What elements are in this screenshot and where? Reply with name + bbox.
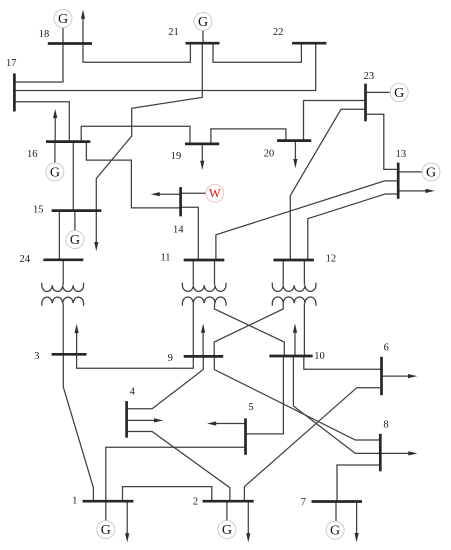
load arrow bus 10 [294, 331, 296, 356]
generator G1 stem [105, 501, 107, 521]
arrowhead bus 19 load [200, 161, 204, 170]
generator G2 [218, 521, 236, 539]
load arrow bus 13 [398, 190, 427, 192]
transformer T24-3 stem bottom to bus 3 [62, 303, 64, 354]
arrowhead bus 18 load [81, 10, 85, 19]
load arrow bus 1 [126, 501, 128, 535]
bus 18 [48, 42, 92, 45]
svg-text:16: 16 [27, 149, 38, 160]
wire transformer T12 to bus 10 [303, 303, 305, 356]
load arrow bus 8 [380, 452, 410, 454]
wire line 11-14 [181, 207, 199, 260]
arrowhead bus 5 load [207, 421, 216, 425]
wire line 12-23 [290, 109, 365, 260]
svg-text:11: 11 [160, 253, 170, 264]
load arrow bus 16 [54, 116, 56, 141]
bus 14 [179, 187, 182, 216]
bus 7 [312, 500, 363, 503]
generator G23 [390, 83, 408, 101]
load arrow bus 14 [158, 193, 181, 195]
svg-text:2: 2 [193, 496, 198, 507]
svg-text:19: 19 [171, 151, 182, 162]
bus 17 [13, 73, 16, 111]
generator G21 [194, 12, 212, 30]
wind generator W14 stem [181, 192, 206, 194]
transformer T12 winding secondary [272, 297, 316, 306]
wire line 11-13 [216, 181, 398, 260]
wire transformer T11 to bus 9 [192, 303, 194, 356]
bus 11 [184, 259, 225, 262]
arrowhead bus 16 load [53, 109, 57, 118]
wire line 3-9 [77, 354, 194, 368]
transformer T12 stems top [282, 260, 284, 285]
bus 6 [380, 357, 383, 395]
svg-text:14: 14 [173, 225, 184, 236]
wire line 16-19 [81, 126, 190, 144]
svg-text:W: W [209, 187, 221, 201]
arrowhead bus 9 load [201, 324, 205, 333]
load arrow bus 6 [382, 375, 410, 377]
bus 13 [397, 163, 400, 199]
arrowhead bus 15 load [94, 242, 98, 251]
wire line 16-17 [14, 102, 69, 142]
bus 22 [292, 42, 326, 45]
wire line 17-18 [14, 44, 63, 83]
svg-text:G: G [222, 523, 232, 538]
arrowhead bus 3 load [75, 324, 79, 333]
wire line 4-9 [127, 356, 204, 408]
generator G2 stem [226, 501, 228, 521]
arrowhead bus 8 load [408, 451, 417, 455]
generator G21 stem [202, 30, 204, 43]
arrowhead bus 10 load [293, 324, 297, 333]
generator G16 [46, 163, 64, 181]
svg-text:G: G [101, 523, 111, 538]
wire line 7-8 [337, 465, 380, 502]
generator G18 stem [62, 27, 64, 43]
bus 20 [277, 139, 311, 142]
transformer T24-3 winding secondary [42, 297, 84, 306]
svg-text:13: 13 [396, 149, 407, 160]
transformer T11 stems top [192, 260, 194, 285]
arrowhead bus 1 load [125, 533, 129, 542]
wire line 14-16 [86, 142, 180, 208]
bus 16 [46, 140, 90, 143]
load arrow bus 20 [294, 141, 296, 161]
load arrow bus 19 [201, 144, 203, 163]
wire line 18-21 [83, 43, 190, 62]
wire line 17-22 [14, 43, 315, 90]
bus 15 [52, 209, 102, 212]
svg-text:21: 21 [168, 27, 179, 38]
arrowhead bus 2 load [246, 533, 250, 542]
wire line 15-21 with load arrow at bus 15 [96, 43, 202, 243]
load arrow bus 18 [82, 17, 84, 44]
svg-text:G: G [198, 15, 208, 30]
transformer T11 winding secondary [182, 297, 226, 306]
svg-text:6: 6 [384, 342, 389, 353]
load arrow bus 5 [215, 423, 246, 425]
svg-text:G: G [70, 233, 80, 248]
wire line 13-23 [366, 114, 399, 169]
wire line 20-23 [304, 101, 366, 141]
bus 1 [83, 500, 134, 503]
svg-text:3: 3 [34, 351, 39, 362]
arrowhead bus 6 load [408, 374, 417, 378]
svg-text:17: 17 [6, 58, 17, 69]
generator G13 [422, 163, 440, 181]
generator G16 stem [54, 142, 56, 164]
load arrow bus 3 [76, 331, 78, 354]
bus 10 [269, 355, 312, 358]
wire transformer T11 to bus 10 (crossing) [215, 303, 285, 356]
arrowhead bus 14 load [151, 192, 160, 196]
generator G1 [97, 521, 115, 539]
svg-text:1: 1 [72, 496, 77, 507]
svg-text:9: 9 [168, 353, 173, 364]
svg-text:7: 7 [301, 497, 306, 508]
wire line 12-13 [308, 194, 398, 260]
svg-text:5: 5 [248, 402, 253, 413]
bus 24 [43, 258, 83, 261]
svg-text:15: 15 [33, 205, 44, 216]
svg-text:24: 24 [20, 254, 31, 265]
svg-text:18: 18 [39, 29, 50, 40]
load arrow bus 7 [356, 502, 358, 535]
wire line 2-4 [127, 432, 230, 502]
svg-text:G: G [58, 12, 68, 27]
bus 2 [203, 500, 254, 503]
wire line 1-5 [106, 447, 246, 501]
bus 23 [364, 84, 367, 122]
wire transformer T12 to bus 9 (crossing) [214, 303, 283, 356]
generator G23 stem [366, 91, 391, 93]
generator G13 stem [398, 171, 422, 173]
load arrow bus 9 [202, 331, 204, 356]
svg-text:G: G [330, 524, 340, 539]
arrowhead bus 20 load [293, 159, 297, 168]
bus 3 [52, 353, 87, 356]
wind generator W14 [206, 184, 224, 202]
svg-text:12: 12 [326, 253, 337, 264]
wire line 19-20 [211, 129, 286, 144]
wire line 5-10 [246, 356, 284, 434]
wire line 8-10 [293, 356, 380, 453]
bus 19 [185, 143, 219, 146]
svg-text:G: G [50, 165, 60, 180]
load arrow bus 2 [247, 501, 249, 535]
wire line 1-3 [63, 354, 93, 501]
generator G7 stem [335, 502, 337, 522]
wire line 1-2 [123, 487, 212, 502]
svg-text:G: G [426, 165, 436, 180]
svg-text:8: 8 [383, 419, 388, 430]
transformer T11 winding primary [182, 283, 226, 292]
generator G7 [326, 521, 344, 539]
wire line 8-9 [214, 356, 380, 440]
generator G18 [54, 10, 72, 28]
bus 4 [125, 401, 128, 438]
wire line 21-22 [213, 43, 301, 62]
arrowhead bus 7 load [355, 533, 359, 542]
wire line 6-10 [304, 356, 382, 369]
transformer T24-3 stem top [62, 260, 64, 285]
wire line 2-6 [244, 388, 381, 502]
svg-text:4: 4 [130, 386, 136, 397]
transformer T24-3 winding primary [42, 283, 84, 292]
transformer T12 winding primary [272, 283, 316, 292]
wire line 15-16 [72, 142, 74, 211]
wire line 15-24 [58, 211, 60, 260]
bus 9 [184, 355, 224, 358]
bus 5 [244, 418, 247, 455]
bus 21 [186, 42, 220, 45]
generator G15 stem [74, 211, 76, 231]
generator G15 [66, 231, 84, 249]
svg-text:22: 22 [273, 27, 284, 38]
arrowhead bus 13 load [426, 189, 435, 193]
svg-text:20: 20 [264, 149, 275, 160]
svg-text:23: 23 [364, 71, 375, 82]
svg-text:10: 10 [314, 351, 325, 362]
bus 12 [273, 259, 314, 262]
load arrow bus 4 [127, 419, 156, 421]
arrowhead bus 4 load [154, 418, 163, 422]
bus 8 [379, 434, 382, 472]
svg-text:G: G [394, 86, 404, 101]
